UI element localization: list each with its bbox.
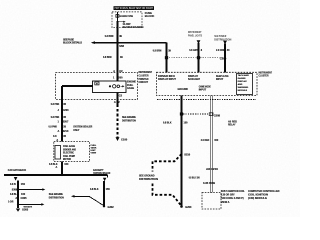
svg-text:0.8 PNK: 0.8 PNK <box>49 125 58 128</box>
svg-text:0.8 BRN: 0.8 BRN <box>103 56 112 59</box>
svg-text:SYSTEM SEALER: SYSTEM SEALER <box>73 125 92 128</box>
svg-text:GAGES FUSE: GAGES FUSE <box>120 14 134 18</box>
svg-text:MODULE: MODULE <box>238 90 248 92</box>
svg-text:0.8 B: 0.8 B <box>10 183 16 186</box>
svg-text:S210: S210 <box>63 130 69 133</box>
svg-text:0.8 BLK: 0.8 BLK <box>90 188 99 191</box>
svg-text:G303: G303 <box>22 209 29 212</box>
svg-text:150: 150 <box>214 139 219 142</box>
svg-text:SEE ENGINE: SEE ENGINE <box>122 117 136 119</box>
wire: dashed to engine harness C100 <box>116 105 120 142</box>
svg-text:DISTRIBUTION: DISTRIBUTION <box>122 121 136 123</box>
wire: ground distribution dashed detour <box>153 154 182 206</box>
svg-text:COIL IGNITION: COIL IGNITION <box>248 194 268 197</box>
svg-text:BACKLIGHT: BACKLIGHT <box>188 78 200 81</box>
svg-text:FUEL PUMP: FUEL PUMP <box>63 156 75 158</box>
node junction <box>17 204 19 206</box>
connector C2 dashed line below cluster <box>157 98 256 100</box>
node: splice on ground bus <box>61 174 63 176</box>
svg-text:0.8 BLK 150: 0.8 BLK 150 <box>189 177 200 180</box>
svg-text:2.0 RED: 2.0 RED <box>201 139 210 142</box>
svg-text:150: 150 <box>21 193 26 196</box>
svg-text:C100: C100 <box>121 137 128 141</box>
wire label 2.0 RED 150 <box>201 139 219 142</box>
svg-text:ONLY: ONLY <box>73 130 80 132</box>
wire: right ground drop <box>103 181 105 206</box>
svg-text:MOTOR: MOTOR <box>63 159 71 161</box>
wire: sender ground drop <box>61 162 63 176</box>
wire: cluster ground drop <box>181 96 183 207</box>
svg-text:0.8 BRN: 0.8 BRN <box>153 50 162 53</box>
svg-text:S207: S207 <box>63 120 69 123</box>
svg-text:A: A <box>56 166 58 169</box>
svg-text:BLOCK DETAILS: BLOCK DETAILS <box>63 41 82 45</box>
svg-text:SUB 5 IGNITION COIL: SUB 5 IGNITION COIL <box>221 190 245 193</box>
label SEE ENGINE DISTRIBUTION <box>122 117 136 123</box>
svg-text:10 AMP: 10 AMP <box>123 22 131 26</box>
svg-text:2-DR HATCHBACK: 2-DR HATCHBACK <box>8 168 26 172</box>
svg-text:RELAY: RELAY <box>228 122 236 126</box>
svg-text:FUEL GAGE: FUEL GAGE <box>63 145 75 148</box>
svg-text:SEE GROUND: SEE GROUND <box>139 175 155 178</box>
svg-text:DISTRIBUTION: DISTRIBUTION <box>139 178 158 181</box>
cluster pin label: display backlight <box>188 75 200 81</box>
connector on ground wire + dashed link <box>180 113 208 115</box>
svg-text:C2: C2 <box>119 69 123 73</box>
svg-text:PANEL LIGHTS: PANEL LIGHTS <box>188 34 202 37</box>
header bar HOT IN RUN <box>114 6 155 10</box>
svg-text:G302: G302 <box>108 206 115 209</box>
module U1: electronic display module box <box>237 74 253 95</box>
fuel tank sender dashed box <box>54 142 90 162</box>
sender element box <box>55 146 61 160</box>
svg-text:A: A <box>113 70 115 73</box>
svg-text:C200: C200 <box>117 77 124 80</box>
pin label A C2 (top entry) <box>113 69 123 73</box>
svg-text:DISPLAY: DISPLAY <box>238 80 248 83</box>
label SEE ENGINE DISTRIBUTION (left of arrow) <box>49 194 64 200</box>
svg-text:BLOCK: BLOCK <box>145 14 155 18</box>
svg-text:SEE ENGINE: SEE ENGINE <box>49 194 63 196</box>
svg-text:0.8 BLK: 0.8 BLK <box>10 193 19 196</box>
svg-text:A: A <box>15 197 17 200</box>
svg-text:0.8: 0.8 <box>53 135 57 138</box>
connector C200 dashed line <box>165 56 227 60</box>
svg-text:2.0 ORN: 2.0 ORN <box>216 49 225 52</box>
svg-text:S210: S210 <box>184 153 190 156</box>
svg-text:DISTRIBUTION: DISTRIBUTION <box>49 197 64 199</box>
svg-text:150: 150 <box>106 188 111 191</box>
node S210 splice <box>180 153 190 156</box>
fuel gauge inner box <box>93 78 127 93</box>
fuse block dashed box <box>112 12 142 28</box>
module: C3I module dashed box <box>202 193 221 210</box>
wire: branch arrow left with diagonal <box>71 195 104 206</box>
svg-text:(VIN CODE 4 AND P): (VIN CODE 4 AND P) <box>221 197 244 200</box>
wire: left ground drop <box>17 181 19 209</box>
note: substitute connector text <box>221 190 245 204</box>
svg-text:GAGE: GAGE <box>127 87 134 90</box>
svg-text:0.8 BLK: 0.8 BLK <box>163 121 172 124</box>
wire: branch arrow right (lower) <box>18 203 44 206</box>
wire: branch arrow right (upper) <box>18 188 45 191</box>
label FUEL GAGE (inside box) <box>127 81 136 91</box>
svg-text:0.35 1049: 0.35 1049 <box>203 181 216 185</box>
svg-text:C200: C200 <box>220 56 227 60</box>
cluster pin label: chime mode input <box>199 86 211 92</box>
connector arrow left end of bus <box>14 177 18 181</box>
label INSTRUMENT CLUSTER (right outside) <box>259 71 273 78</box>
fuse F1 GAGES FUSE 10 AMP <box>116 12 144 29</box>
svg-text:C200: C200 <box>63 109 70 112</box>
svg-text:INPUT: INPUT <box>216 78 224 81</box>
svg-text:GROUND: GROUND <box>178 88 189 91</box>
gauge icon: fuel gauge <box>95 82 125 88</box>
svg-text:0.8 PNK: 0.8 PNK <box>51 116 60 119</box>
svg-text:TACH AND: TACH AND <box>238 74 250 77</box>
svg-text:COMPUTER CONTROLLED: COMPUTER CONTROLLED <box>248 190 280 193</box>
svg-text:A: A <box>58 130 60 133</box>
svg-text:CLUSTER: CLUSTER <box>259 73 269 77</box>
wire: branch down to driver info display (right corner) <box>166 43 168 73</box>
svg-text:DISTRIBUTION: DISTRIBUTION <box>214 38 231 41</box>
svg-text:STATION WAGON: STATION WAGON <box>93 171 110 175</box>
svg-text:SENDER AND: SENDER AND <box>63 148 76 151</box>
note FUEL TANK UNIT <box>91 145 98 155</box>
wire: gauge output lower <box>117 93 119 105</box>
svg-text:C305: C305 <box>21 197 28 200</box>
wire: right end of bus corner down <box>107 175 109 178</box>
wire label 0.8 BRN 39 (branch) <box>153 50 172 53</box>
note: C3I module text <box>248 190 280 200</box>
wire: instrument panel lights feed (arrow down) <box>188 31 203 72</box>
svg-text:VIEW A: VIEW A <box>221 201 230 204</box>
svg-text:ELECTRIC: ELECTRIC <box>63 153 74 155</box>
label FUEL GAGE SENDER <box>63 145 76 161</box>
sender wire labels column <box>51 103 67 106</box>
wire label 0.8 BRN 39 (lower) <box>103 56 123 59</box>
svg-text:(C3I) MODULE: (C3I) MODULE <box>248 197 267 200</box>
svg-text:G200: G200 <box>185 206 192 209</box>
cluster pin label: panel dimming input <box>158 75 177 81</box>
ground G200 node <box>180 205 192 209</box>
instrument cluster (right) dashed box <box>157 72 258 95</box>
svg-text:0.35 OR GRY: 0.35 OR GRY <box>221 194 235 197</box>
svg-text:CIRCUIT: CIRCUIT <box>139 81 149 84</box>
svg-text:SEE FUSE BLOCK DETAILS: SEE FUSE BLOCK DETAILS <box>123 26 144 29</box>
instrument cluster (middle) dashed box <box>56 73 138 100</box>
ground G303 <box>16 209 29 212</box>
svg-text:HOT IN RUN, BULB TEST OR START: HOT IN RUN, BULB TEST OR START <box>115 7 154 10</box>
svg-text:WARNING: WARNING <box>238 86 249 89</box>
label FUSE BLOCK <box>145 11 155 18</box>
wire: battery feed from power distribution (arrow down) <box>214 35 231 72</box>
svg-text:0.8 GRY: 0.8 GRY <box>189 49 198 52</box>
ground G302 node <box>103 205 114 209</box>
svg-text:A C2: A C2 <box>114 100 120 104</box>
label A5 RED RELAY <box>228 119 237 126</box>
svg-text:1-DR: 1-DR <box>8 202 14 204</box>
svg-text:150: 150 <box>21 183 26 186</box>
svg-text:AND: AND <box>238 83 243 86</box>
label SEE FUSE BLOCK DETAILS <box>63 38 82 45</box>
wire label 0.8 BRN 39 (upper) <box>105 35 123 38</box>
svg-text:VIEW: VIEW <box>91 153 98 155</box>
label SEE GROUND DISTRIBUTION <box>139 175 158 182</box>
note SYSTEM SEALER ONLY <box>73 125 92 132</box>
wire: main feed vertical from fuse to instrument cluster <box>117 21 119 81</box>
svg-text:GAGES: GAGES <box>238 77 246 80</box>
wire label 0.8 BLK 150 <box>163 121 188 124</box>
svg-text:150: 150 <box>184 121 189 124</box>
left drop labels <box>10 183 26 186</box>
wire: gauge to sender (internal) <box>62 86 93 142</box>
svg-text:A8 C210: A8 C210 <box>206 167 219 171</box>
svg-text:INPUT: INPUT <box>199 88 207 91</box>
svg-text:0.8 PNK: 0.8 PNK <box>51 103 60 106</box>
node S58 junction on main wire <box>116 42 118 44</box>
cluster pin label: keep alive input <box>216 75 229 81</box>
label INSTRUMENT CLUSTER PRINTED CIRCUIT <box>139 71 153 84</box>
svg-text:150: 150 <box>64 163 69 166</box>
wire: ground bus horizontal <box>4 174 108 176</box>
svg-text:S58: S58 <box>119 44 124 48</box>
connector C208 on chime wire <box>209 113 220 118</box>
label EXCEPT STATION WAGON <box>93 168 110 175</box>
svg-text:C208: C208 <box>214 114 221 118</box>
svg-text:0.8 BRN: 0.8 BRN <box>105 35 114 38</box>
svg-text:DISPLAY INPUT: DISPLAY INPUT <box>158 78 177 81</box>
svg-text:S306: S306 <box>12 189 18 191</box>
wire: chime signal (twisted pair double line) <box>210 96 212 193</box>
wire: horizontal branch to fuse block details (left arrow) <box>91 41 167 44</box>
